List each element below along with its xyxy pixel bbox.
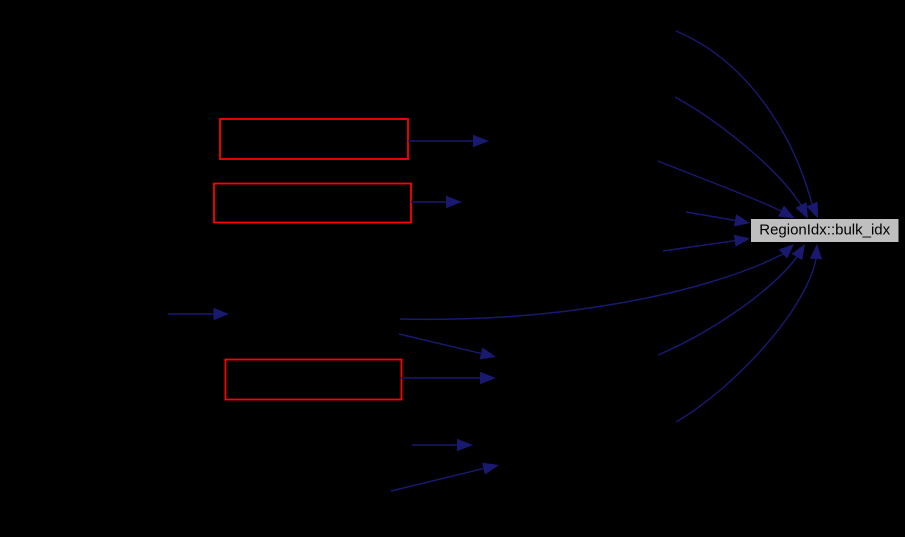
svg-text:RegionIdx::bulk_idx: RegionIdx::bulk_idx <box>759 222 890 239</box>
edge S7: caller -> RegionIdx::bulk_idx (bottom) <box>658 244 805 355</box>
edge S6: hidden center node -> RegionIdx::bulk_idx (long) <box>400 244 794 319</box>
edge E3: hidden node -> hidden center node <box>168 308 229 320</box>
edge S4: caller -> RegionIdx::bulk_idx (left upper) <box>686 212 750 227</box>
edge E5: hidden center node -> hidden lower node <box>399 334 496 359</box>
edge S3: caller -> RegionIdx::bulk_idx <box>658 161 795 219</box>
node: truncated caller box R2 (red) <box>214 184 411 223</box>
edge S1: top caller -> RegionIdx::bulk_idx <box>676 31 818 219</box>
edge S2: caller -> RegionIdx::bulk_idx <box>675 97 808 219</box>
edge E1: R1 -> hidden node <box>408 135 489 147</box>
edge E6: R3 -> hidden node <box>401 372 496 384</box>
edge E8: hidden node -> hidden node (bottom diagonal) <box>391 463 499 491</box>
edge S8: caller -> RegionIdx::bulk_idx (bottom steep) <box>676 244 822 422</box>
node: truncated caller box R3 (red) <box>226 360 402 400</box>
edge E2: R2 -> hidden node <box>411 196 462 208</box>
node: RegionIdx::bulk_idx (current function, grey) <box>751 219 900 243</box>
edge S5: caller -> RegionIdx::bulk_idx (left lower) <box>663 235 750 251</box>
node: truncated caller box R1 (red) <box>220 119 408 159</box>
edge E7: hidden node -> hidden node (bottom) <box>412 439 473 451</box>
